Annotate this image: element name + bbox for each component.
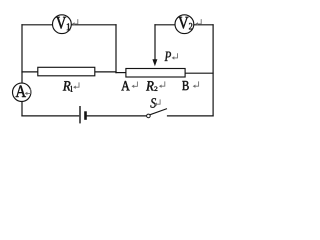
return mark after ammeter A xyxy=(27,89,31,94)
resistor R1 box xyxy=(38,67,95,76)
wire left vertical (through ammeter position) xyxy=(21,25,23,116)
return mark after R2 xyxy=(161,81,165,86)
voltmeter V1 circle xyxy=(53,15,72,34)
label R2 subscript 2 xyxy=(154,87,157,91)
battery short thick plate (-) xyxy=(84,111,87,120)
wire V2 top horizontal xyxy=(155,24,213,26)
paragraph return marks xyxy=(27,19,201,104)
wire battery to switch xyxy=(87,115,147,117)
wire R2 left stub xyxy=(116,72,126,74)
arrowhead of return mark terminal A xyxy=(132,85,135,88)
return mark after S xyxy=(157,99,161,104)
label B terminal xyxy=(182,81,188,90)
label R2 xyxy=(146,81,154,90)
voltmeter V1 label V xyxy=(56,17,66,29)
voltmeter V2 subscript 2 xyxy=(189,23,192,29)
ammeter label A xyxy=(16,85,26,97)
return mark after terminal A xyxy=(134,82,138,87)
ammeter A circle xyxy=(13,83,31,101)
arrowhead of return mark P xyxy=(172,56,175,59)
wire R1 left stub xyxy=(22,71,38,73)
voltmeter V2 circle xyxy=(175,15,194,34)
switch S pivot circle xyxy=(147,114,151,118)
return mark after V2 xyxy=(198,19,202,24)
label P slider xyxy=(164,52,171,61)
arrowhead of return mark S xyxy=(154,103,157,106)
wire slider arrow shaft from V2 loop xyxy=(154,25,156,60)
arrowhead of return mark R2 xyxy=(159,85,162,88)
wire R1 right stub to junction xyxy=(95,71,116,73)
battery long plate (+) xyxy=(79,106,81,123)
wire top-left horizontal from left vertical to junction vertical xyxy=(22,24,116,26)
wire bottom left to battery xyxy=(22,115,79,117)
switch S blade xyxy=(150,109,167,115)
voltmeter V1 subscript 1 xyxy=(67,23,70,30)
wire right vertical xyxy=(212,25,214,116)
label R1 subscript 1 xyxy=(71,86,73,92)
return mark after V1 xyxy=(74,19,78,24)
arrowhead of return mark V2 xyxy=(195,22,198,25)
return mark after terminal B xyxy=(195,81,199,86)
wire node B to right vertical xyxy=(185,72,213,74)
wire junction vertical at node A of rheostat xyxy=(115,25,117,73)
arrowhead of return mark R1 xyxy=(73,86,76,89)
label A terminal xyxy=(121,81,129,90)
arrowhead of return mark V1 xyxy=(72,22,75,25)
rheostat R2 box xyxy=(126,69,185,78)
slider arrowhead P xyxy=(152,59,157,66)
label R1 xyxy=(63,81,71,90)
voltmeter V2 label V xyxy=(178,17,188,29)
return mark after P xyxy=(174,53,178,58)
arrowhead of return mark ammeter xyxy=(25,92,28,95)
wire switch to right vertical xyxy=(168,115,214,117)
label S switch xyxy=(150,98,156,107)
arrowhead of return mark terminal B xyxy=(193,85,196,88)
return mark after R1 xyxy=(75,82,79,87)
